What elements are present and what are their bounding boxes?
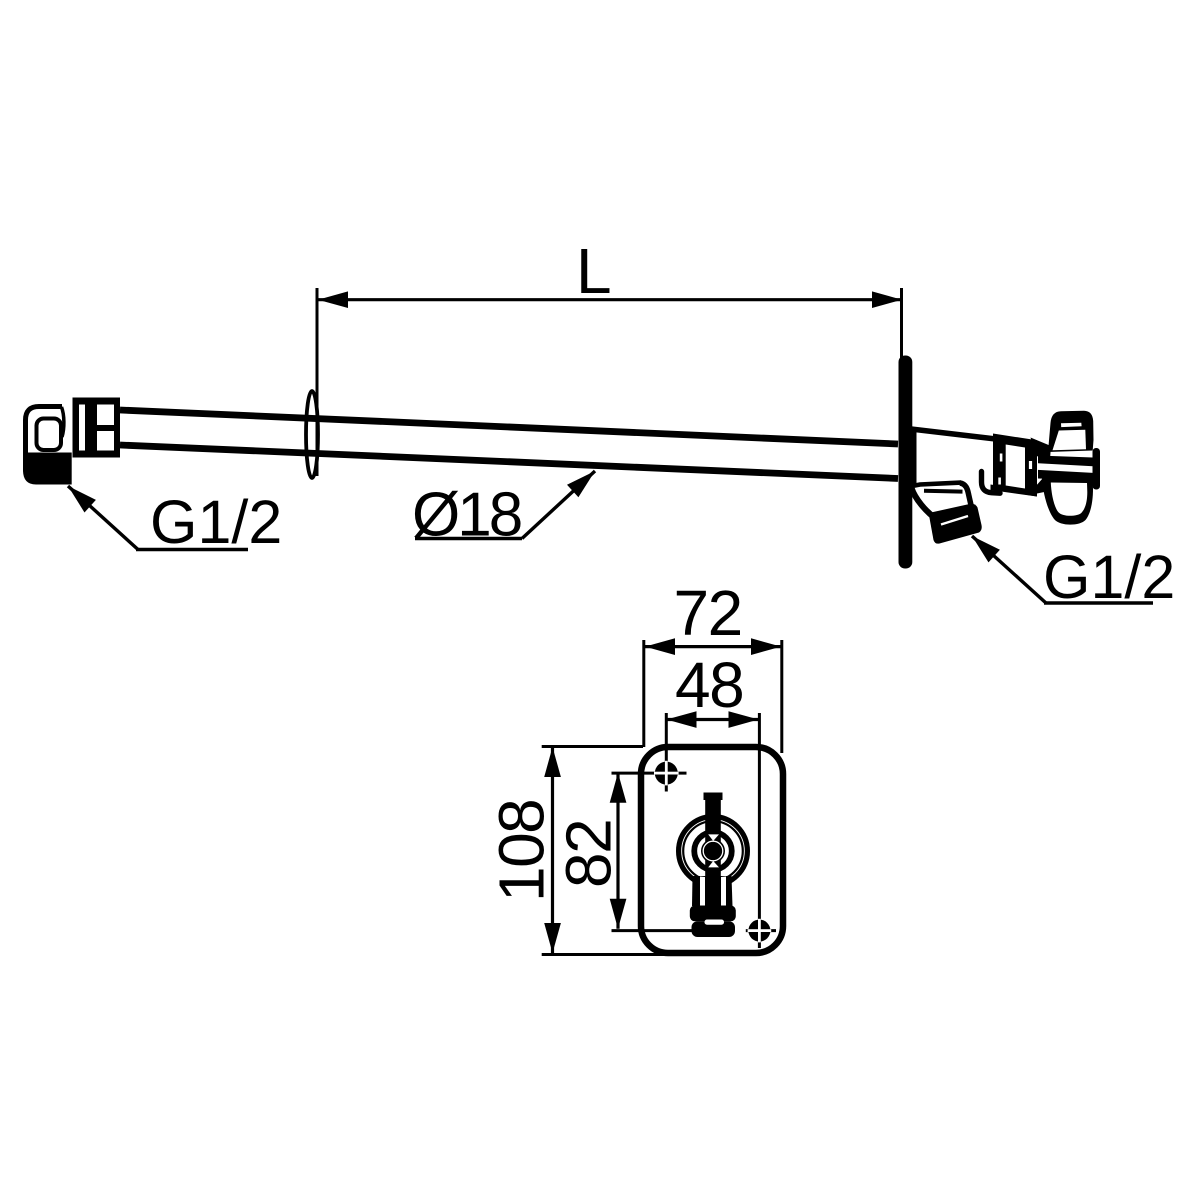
spout right edge <box>960 483 973 514</box>
wall plate front view <box>641 747 783 953</box>
spout top lip <box>911 483 961 487</box>
dimension 72 line <box>645 645 781 648</box>
handle front: keyhole column <box>692 876 733 906</box>
diameter underline <box>415 537 522 540</box>
handle front: cap slit <box>705 920 725 925</box>
dimension L right extension line <box>900 288 903 372</box>
dimension 108 top extension <box>542 745 643 748</box>
handle front: white triangle above <box>708 834 719 841</box>
valve body top line <box>911 429 1000 440</box>
G1/2 right leader <box>972 536 1046 603</box>
dimension 82 bottom arrow <box>610 899 627 929</box>
dimension 82 top extension <box>612 772 687 775</box>
handle bottom lobe silhouette <box>1042 478 1093 525</box>
diameter arrow <box>567 471 595 497</box>
handle front: outer band circle <box>679 817 748 886</box>
handle top lobe silhouette <box>1048 411 1094 452</box>
valve bonnet <box>993 434 1037 497</box>
pipe flange <box>306 391 318 478</box>
bonnet notch details <box>1000 454 1003 462</box>
dimension 108 bottom arrow <box>544 923 561 953</box>
svg-text:72: 72 <box>674 577 742 649</box>
handle neck bottom wedge <box>1031 478 1051 494</box>
dimension 108 line <box>551 747 554 953</box>
nut body <box>73 398 121 458</box>
handle front: white triangle below <box>708 861 719 867</box>
dimension 108 bottom extension <box>542 953 668 956</box>
spout inner lip <box>924 489 963 494</box>
handle front: middle ring <box>694 832 732 870</box>
elbow edge curve <box>62 407 64 437</box>
dimension 82 line <box>616 773 619 929</box>
elbow black bottom <box>23 453 72 485</box>
handle stem black block <box>1038 456 1093 481</box>
dimension 72 right arrow <box>751 638 781 655</box>
handle top lobe white interior <box>1053 430 1087 450</box>
nut window top <box>97 405 114 426</box>
dimension 72 left arrow <box>645 638 675 655</box>
elbow inner window <box>37 419 62 451</box>
handle bottom lobe white interior <box>1051 483 1088 516</box>
handle neck top wedge <box>1031 438 1052 460</box>
G1/2 left leader <box>68 486 138 550</box>
dimension 108 top arrow <box>544 747 561 777</box>
spout black tip <box>929 504 981 544</box>
pipe bottom line <box>120 445 898 479</box>
spout tip slit <box>941 516 968 525</box>
screw crosshair bottom right <box>746 929 776 932</box>
svg-text:G1/2: G1/2 <box>1043 543 1175 611</box>
dimension 72 right extension <box>780 640 783 753</box>
screw top left <box>655 762 678 785</box>
svg-text:108: 108 <box>486 800 558 902</box>
handle top lobe white sliver <box>1061 423 1082 427</box>
nut slot <box>79 405 85 451</box>
dimension 48 line <box>667 718 759 721</box>
valve body left edge against plate <box>912 427 917 488</box>
svg-text:L: L <box>576 235 612 307</box>
wall plate side view <box>899 356 913 569</box>
svg-text:82: 82 <box>553 820 625 888</box>
G1/2 left underline <box>136 548 248 551</box>
dimension L right arrow <box>872 291 902 308</box>
svg-text:G1/2: G1/2 <box>150 488 282 556</box>
bonnet window <box>1006 445 1025 489</box>
dimension 72 left extension <box>642 640 645 747</box>
dimension 82 bottom extension <box>612 929 713 932</box>
pipe top line <box>120 410 898 444</box>
handle front: inner disc <box>701 839 725 863</box>
dimension L left arrow <box>318 291 348 308</box>
G1/2 right underline <box>1044 601 1153 604</box>
dimension 48 right arrow <box>729 711 759 728</box>
handle front: vertical bar <box>705 793 721 907</box>
dimension 48 left extension <box>665 713 668 792</box>
handle front: bar head flare <box>704 793 723 801</box>
hook between body and bonnet <box>982 472 1001 494</box>
G1/2 left arrow <box>68 486 96 513</box>
dimension L left extension line <box>316 288 319 476</box>
handle front: keyhole white slot right <box>721 877 726 907</box>
dimension 48 left arrow <box>667 711 697 728</box>
G1/2 right arrow <box>972 536 1000 562</box>
svg-text:Ø18: Ø18 <box>412 481 521 550</box>
handle front: thin inner circle of outer band <box>683 821 743 881</box>
svg-text:48: 48 <box>675 649 743 721</box>
handle front: keyhole white slot left <box>700 877 705 907</box>
dimension 48 right extension <box>758 713 761 948</box>
dimension L line <box>317 298 903 301</box>
handle right cap <box>1093 448 1101 490</box>
screw bottom right <box>748 920 770 942</box>
spout left edge <box>912 488 939 521</box>
nut window bottom <box>97 431 114 451</box>
handle front: nut band <box>690 906 736 922</box>
elbow body G1/2 left <box>26 407 65 482</box>
diameter label leader <box>522 471 595 539</box>
bonnet bottom band <box>991 485 1038 497</box>
handle stem white slot <box>1038 463 1093 473</box>
handle front: bottom cap <box>692 921 736 937</box>
dimension 82 top arrow <box>610 773 627 803</box>
handle front: disc inner white circle <box>703 841 723 861</box>
